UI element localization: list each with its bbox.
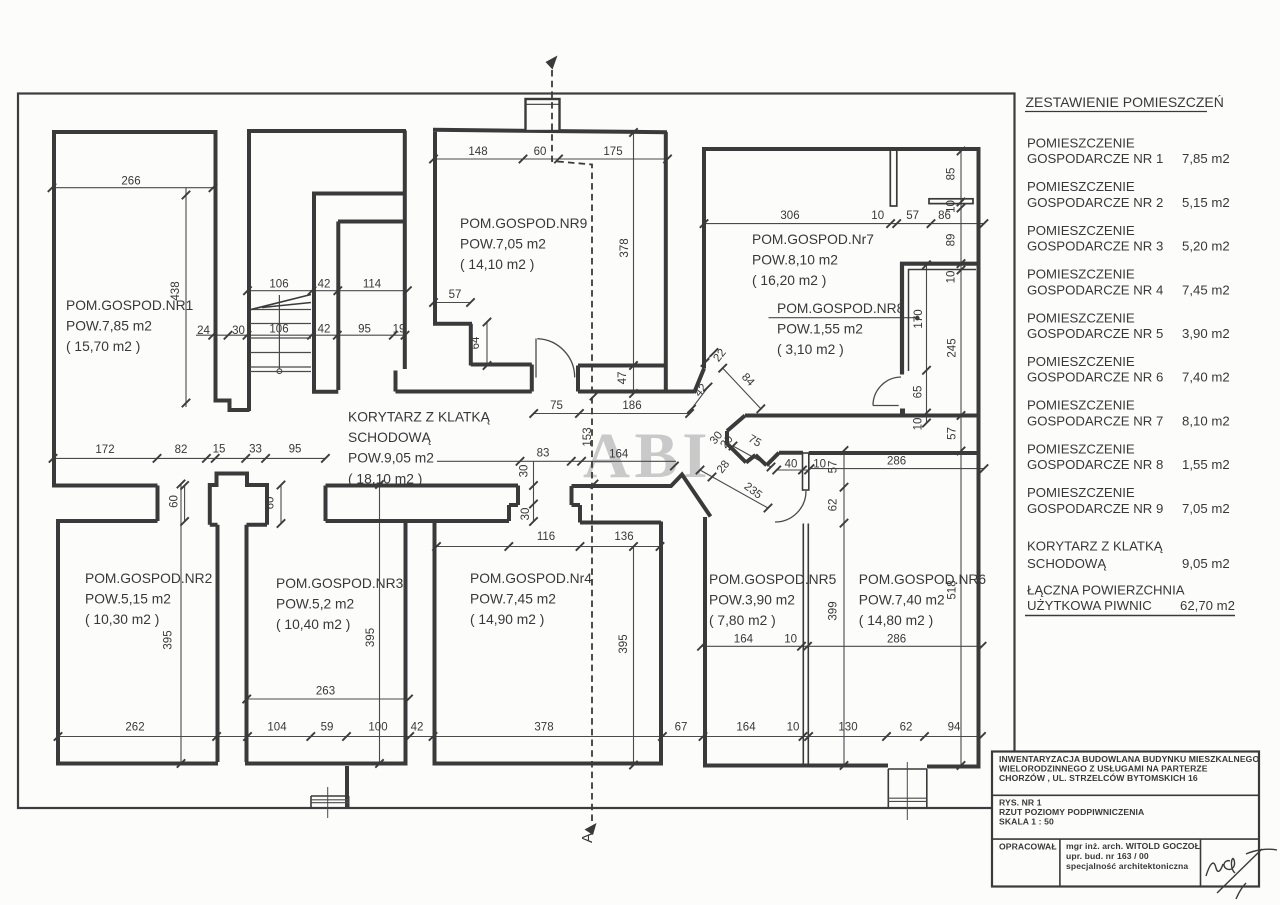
svg-text:8,10 m2: 8,10 m2: [1182, 413, 1230, 428]
svg-text:( 14,10 m2 ): ( 14,10 m2 ): [460, 257, 534, 272]
svg-text:( 10,40 m2 ): ( 10,40 m2 ): [276, 617, 350, 632]
svg-text:( 10,30 m2 ): ( 10,30 m2 ): [85, 612, 159, 627]
svg-text:262: 262: [125, 722, 144, 734]
svg-text:286: 286: [887, 634, 906, 646]
svg-text:62,70 m2: 62,70 m2: [1180, 598, 1235, 613]
svg-text:( 15,70 m2 ): ( 15,70 m2 ): [66, 339, 140, 354]
svg-text:10: 10: [946, 200, 958, 213]
svg-text:POM.GOSPOD.NR5: POM.GOSPOD.NR5: [709, 572, 837, 587]
svg-text:130: 130: [838, 722, 857, 734]
svg-text:7,05 m2: 7,05 m2: [1182, 501, 1230, 516]
svg-text:62: 62: [828, 499, 840, 512]
svg-text:KORYTARZ Z KLATKĄ: KORYTARZ Z KLATKĄ: [1027, 539, 1163, 554]
svg-text:10: 10: [871, 210, 884, 222]
svg-text:10: 10: [787, 722, 800, 734]
svg-text:266: 266: [121, 176, 140, 188]
svg-text:POMIESZCZENIE: POMIESZCZENIE: [1027, 267, 1135, 282]
svg-text:7,85 m2: 7,85 m2: [1182, 151, 1230, 166]
svg-text:116: 116: [537, 531, 555, 543]
svg-text:POW.8,10 m2: POW.8,10 m2: [752, 253, 838, 268]
svg-text:15: 15: [213, 444, 226, 456]
svg-text:85: 85: [946, 168, 958, 181]
svg-text:POW.5,2 m2: POW.5,2 m2: [276, 597, 354, 612]
svg-text:57: 57: [947, 427, 959, 440]
svg-text:1,55 m2: 1,55 m2: [1182, 457, 1230, 472]
svg-text:172: 172: [95, 444, 114, 456]
svg-text:170: 170: [913, 309, 925, 328]
svg-text:10: 10: [813, 459, 826, 471]
svg-text:395: 395: [163, 630, 175, 649]
svg-text:GOSPODARCZE NR 5: GOSPODARCZE NR 5: [1027, 326, 1163, 341]
svg-text:SCHODOWĄ: SCHODOWĄ: [348, 430, 432, 445]
svg-text:378: 378: [534, 722, 553, 734]
svg-text:10: 10: [913, 418, 925, 431]
svg-text:59: 59: [321, 722, 334, 734]
svg-text:95: 95: [289, 444, 302, 456]
svg-text:94: 94: [948, 722, 961, 734]
svg-text:306: 306: [780, 210, 799, 222]
svg-text:POW.9,05 m2: POW.9,05 m2: [348, 451, 434, 466]
svg-text:164: 164: [736, 722, 756, 734]
svg-text:42: 42: [411, 722, 424, 734]
svg-text:GOSPODARCZE NR 8: GOSPODARCZE NR 8: [1027, 457, 1163, 472]
svg-text:ŁĄCZNA POWIERZCHNIA: ŁĄCZNA POWIERZCHNIA: [1027, 582, 1185, 597]
svg-text:83: 83: [537, 448, 550, 460]
svg-text:POM.GOSPOD.NR3: POM.GOSPOD.NR3: [276, 576, 404, 591]
svg-text:30: 30: [520, 508, 532, 521]
svg-text:GOSPODARCZE NR 1: GOSPODARCZE NR 1: [1027, 151, 1163, 166]
svg-text:30: 30: [232, 325, 245, 337]
svg-text:33: 33: [249, 444, 262, 456]
svg-text:POW.7,85 m2: POW.7,85 m2: [66, 319, 152, 334]
svg-text:mgr inż. arch. WITOLD GOCZOŁ: mgr inż. arch. WITOLD GOCZOŁ: [1066, 841, 1200, 851]
svg-text:POMIESZCZENIE: POMIESZCZENIE: [1027, 485, 1135, 500]
svg-text:30: 30: [519, 465, 531, 478]
svg-text:95: 95: [358, 324, 371, 336]
svg-text:POMIESZCZENIE: POMIESZCZENIE: [1027, 310, 1135, 325]
svg-text:POW.1,55 m2: POW.1,55 m2: [777, 322, 863, 337]
svg-text:164: 164: [734, 634, 754, 646]
svg-text:POM.GOSPOD.Nr7: POM.GOSPOD.Nr7: [752, 232, 874, 247]
svg-text:60: 60: [169, 495, 181, 508]
svg-text:upr. bud. nr 163 / 00: upr. bud. nr 163 / 00: [1066, 851, 1149, 861]
svg-text:GOSPODARCZE NR 2: GOSPODARCZE NR 2: [1027, 195, 1163, 210]
svg-text:POM.GOSPOD.NR9: POM.GOSPOD.NR9: [460, 216, 588, 231]
svg-text:148: 148: [468, 146, 487, 158]
svg-text:POMIESZCZENIE: POMIESZCZENIE: [1027, 136, 1135, 151]
svg-text:42: 42: [318, 324, 331, 336]
svg-text:175: 175: [603, 146, 622, 158]
svg-text:60: 60: [534, 146, 547, 158]
svg-text:136: 136: [614, 531, 633, 543]
svg-text:57: 57: [449, 289, 462, 301]
svg-text:POMIESZCZENIE: POMIESZCZENIE: [1027, 223, 1135, 238]
svg-text:SCHODOWĄ: SCHODOWĄ: [1027, 556, 1106, 571]
svg-text:GOSPODARCZE NR 4: GOSPODARCZE NR 4: [1027, 282, 1163, 297]
svg-text:395: 395: [365, 628, 377, 647]
svg-text:( 14,90 m2 ): ( 14,90 m2 ): [470, 612, 544, 627]
svg-text:GOSPODARCZE NR 6: GOSPODARCZE NR 6: [1027, 370, 1163, 385]
svg-text:57: 57: [906, 210, 919, 222]
svg-text:286: 286: [887, 456, 906, 468]
svg-text:( 16,20 m2 ): ( 16,20 m2 ): [752, 273, 826, 288]
svg-text:62: 62: [900, 722, 913, 734]
svg-text:75: 75: [550, 400, 563, 412]
svg-text:CHORZÓW , UL. STRZELCÓW BYTOMS: CHORZÓW , UL. STRZELCÓW BYTOMSKICH 16: [999, 772, 1198, 783]
svg-text:106: 106: [269, 279, 288, 291]
svg-text:RZUT POZIOMY PODPIWNICZENIA: RZUT POZIOMY PODPIWNICZENIA: [999, 807, 1144, 817]
svg-text:7,45 m2: 7,45 m2: [1182, 282, 1230, 297]
svg-text:( 7,80 m2 ): ( 7,80 m2 ): [709, 613, 776, 628]
svg-text:263: 263: [316, 686, 335, 698]
svg-text:WIELORODZINNEGO Z USŁUGAMI NA: WIELORODZINNEGO Z USŁUGAMI NA PARTERZE: [999, 764, 1208, 774]
svg-text:114: 114: [363, 279, 382, 291]
svg-text:POMIESZCZENIE: POMIESZCZENIE: [1027, 398, 1135, 413]
svg-text:5,15 m2: 5,15 m2: [1182, 195, 1230, 210]
svg-text:POM.GOSPOD.NR8: POM.GOSPOD.NR8: [777, 301, 905, 316]
svg-text:SKALA 1 : 50: SKALA 1 : 50: [999, 817, 1054, 827]
svg-text:42: 42: [318, 279, 331, 291]
svg-text:10: 10: [946, 271, 958, 284]
svg-text:POW.3,90 m2: POW.3,90 m2: [709, 593, 795, 608]
svg-text:3,90 m2: 3,90 m2: [1182, 326, 1230, 341]
svg-text:57: 57: [828, 461, 840, 474]
svg-text:7,40 m2: 7,40 m2: [1182, 370, 1230, 385]
svg-text:POW.7,40 m2: POW.7,40 m2: [859, 593, 945, 608]
svg-text:specjalność architektoniczna: specjalność architektoniczna: [1066, 861, 1188, 871]
svg-text:82: 82: [175, 444, 188, 456]
svg-text:186: 186: [622, 400, 641, 412]
svg-text:5,20 m2: 5,20 m2: [1182, 239, 1230, 254]
svg-text:47: 47: [617, 372, 629, 385]
svg-text:A: A: [579, 833, 596, 843]
svg-text:INWENTARYZACJA BUDOWLANA BUDYN: INWENTARYZACJA BUDOWLANA BUDYNKU MIESZKA…: [999, 754, 1259, 764]
svg-text:40: 40: [785, 459, 798, 471]
svg-text:9,05 m2: 9,05 m2: [1182, 556, 1230, 571]
svg-text:378: 378: [619, 238, 631, 257]
svg-text:KORYTARZ Z KLATKĄ: KORYTARZ Z KLATKĄ: [348, 410, 491, 425]
svg-text:GOSPODARCZE NR 7: GOSPODARCZE NR 7: [1027, 413, 1163, 428]
svg-text:POMIESZCZENIE: POMIESZCZENIE: [1027, 441, 1135, 456]
svg-text:( 14,80 m2 ): ( 14,80 m2 ): [859, 613, 933, 628]
svg-text:399: 399: [828, 601, 840, 620]
svg-text:RYS. NR 1: RYS. NR 1: [999, 798, 1042, 808]
svg-text:POM.GOSPOD.Nr4: POM.GOSPOD.Nr4: [470, 571, 592, 586]
svg-text:POM.GOSPOD.NR6: POM.GOSPOD.NR6: [859, 572, 987, 587]
svg-text:POMIESZCZENIE: POMIESZCZENIE: [1027, 354, 1135, 369]
svg-text:395: 395: [618, 634, 630, 653]
svg-text:ZESTAWIENIE POMIESZCZEŃ: ZESTAWIENIE POMIESZCZEŃ: [1026, 94, 1224, 110]
svg-text:OPRACOWAŁ: OPRACOWAŁ: [999, 842, 1057, 852]
svg-text:POW.5,15 m2: POW.5,15 m2: [85, 592, 171, 607]
svg-text:65: 65: [913, 386, 925, 399]
svg-text:10: 10: [784, 634, 797, 646]
svg-text:POMIESZCZENIE: POMIESZCZENIE: [1027, 179, 1135, 194]
svg-text:104: 104: [267, 722, 287, 734]
svg-text:245: 245: [947, 338, 959, 357]
svg-text:ABI: ABI: [583, 420, 712, 492]
svg-text:POW.7,05 m2: POW.7,05 m2: [460, 237, 546, 252]
svg-text:24: 24: [197, 325, 210, 337]
svg-text:100: 100: [368, 722, 387, 734]
svg-text:GOSPODARCZE NR 3: GOSPODARCZE NR 3: [1027, 239, 1163, 254]
svg-text:( 3,10 m2 ): ( 3,10 m2 ): [777, 342, 844, 357]
svg-text:POM.GOSPOD.NR1: POM.GOSPOD.NR1: [66, 298, 193, 313]
svg-text:164: 164: [609, 449, 629, 461]
svg-text:POM.GOSPOD.NR2: POM.GOSPOD.NR2: [85, 571, 212, 586]
svg-text:89: 89: [946, 234, 958, 247]
svg-text:UŻYTKOWA PIWNIC: UŻYTKOWA PIWNIC: [1027, 598, 1152, 613]
svg-text:GOSPODARCZE NR 9: GOSPODARCZE NR 9: [1027, 501, 1163, 516]
svg-text:POW.7,45 m2: POW.7,45 m2: [470, 592, 556, 607]
svg-text:67: 67: [675, 722, 688, 734]
